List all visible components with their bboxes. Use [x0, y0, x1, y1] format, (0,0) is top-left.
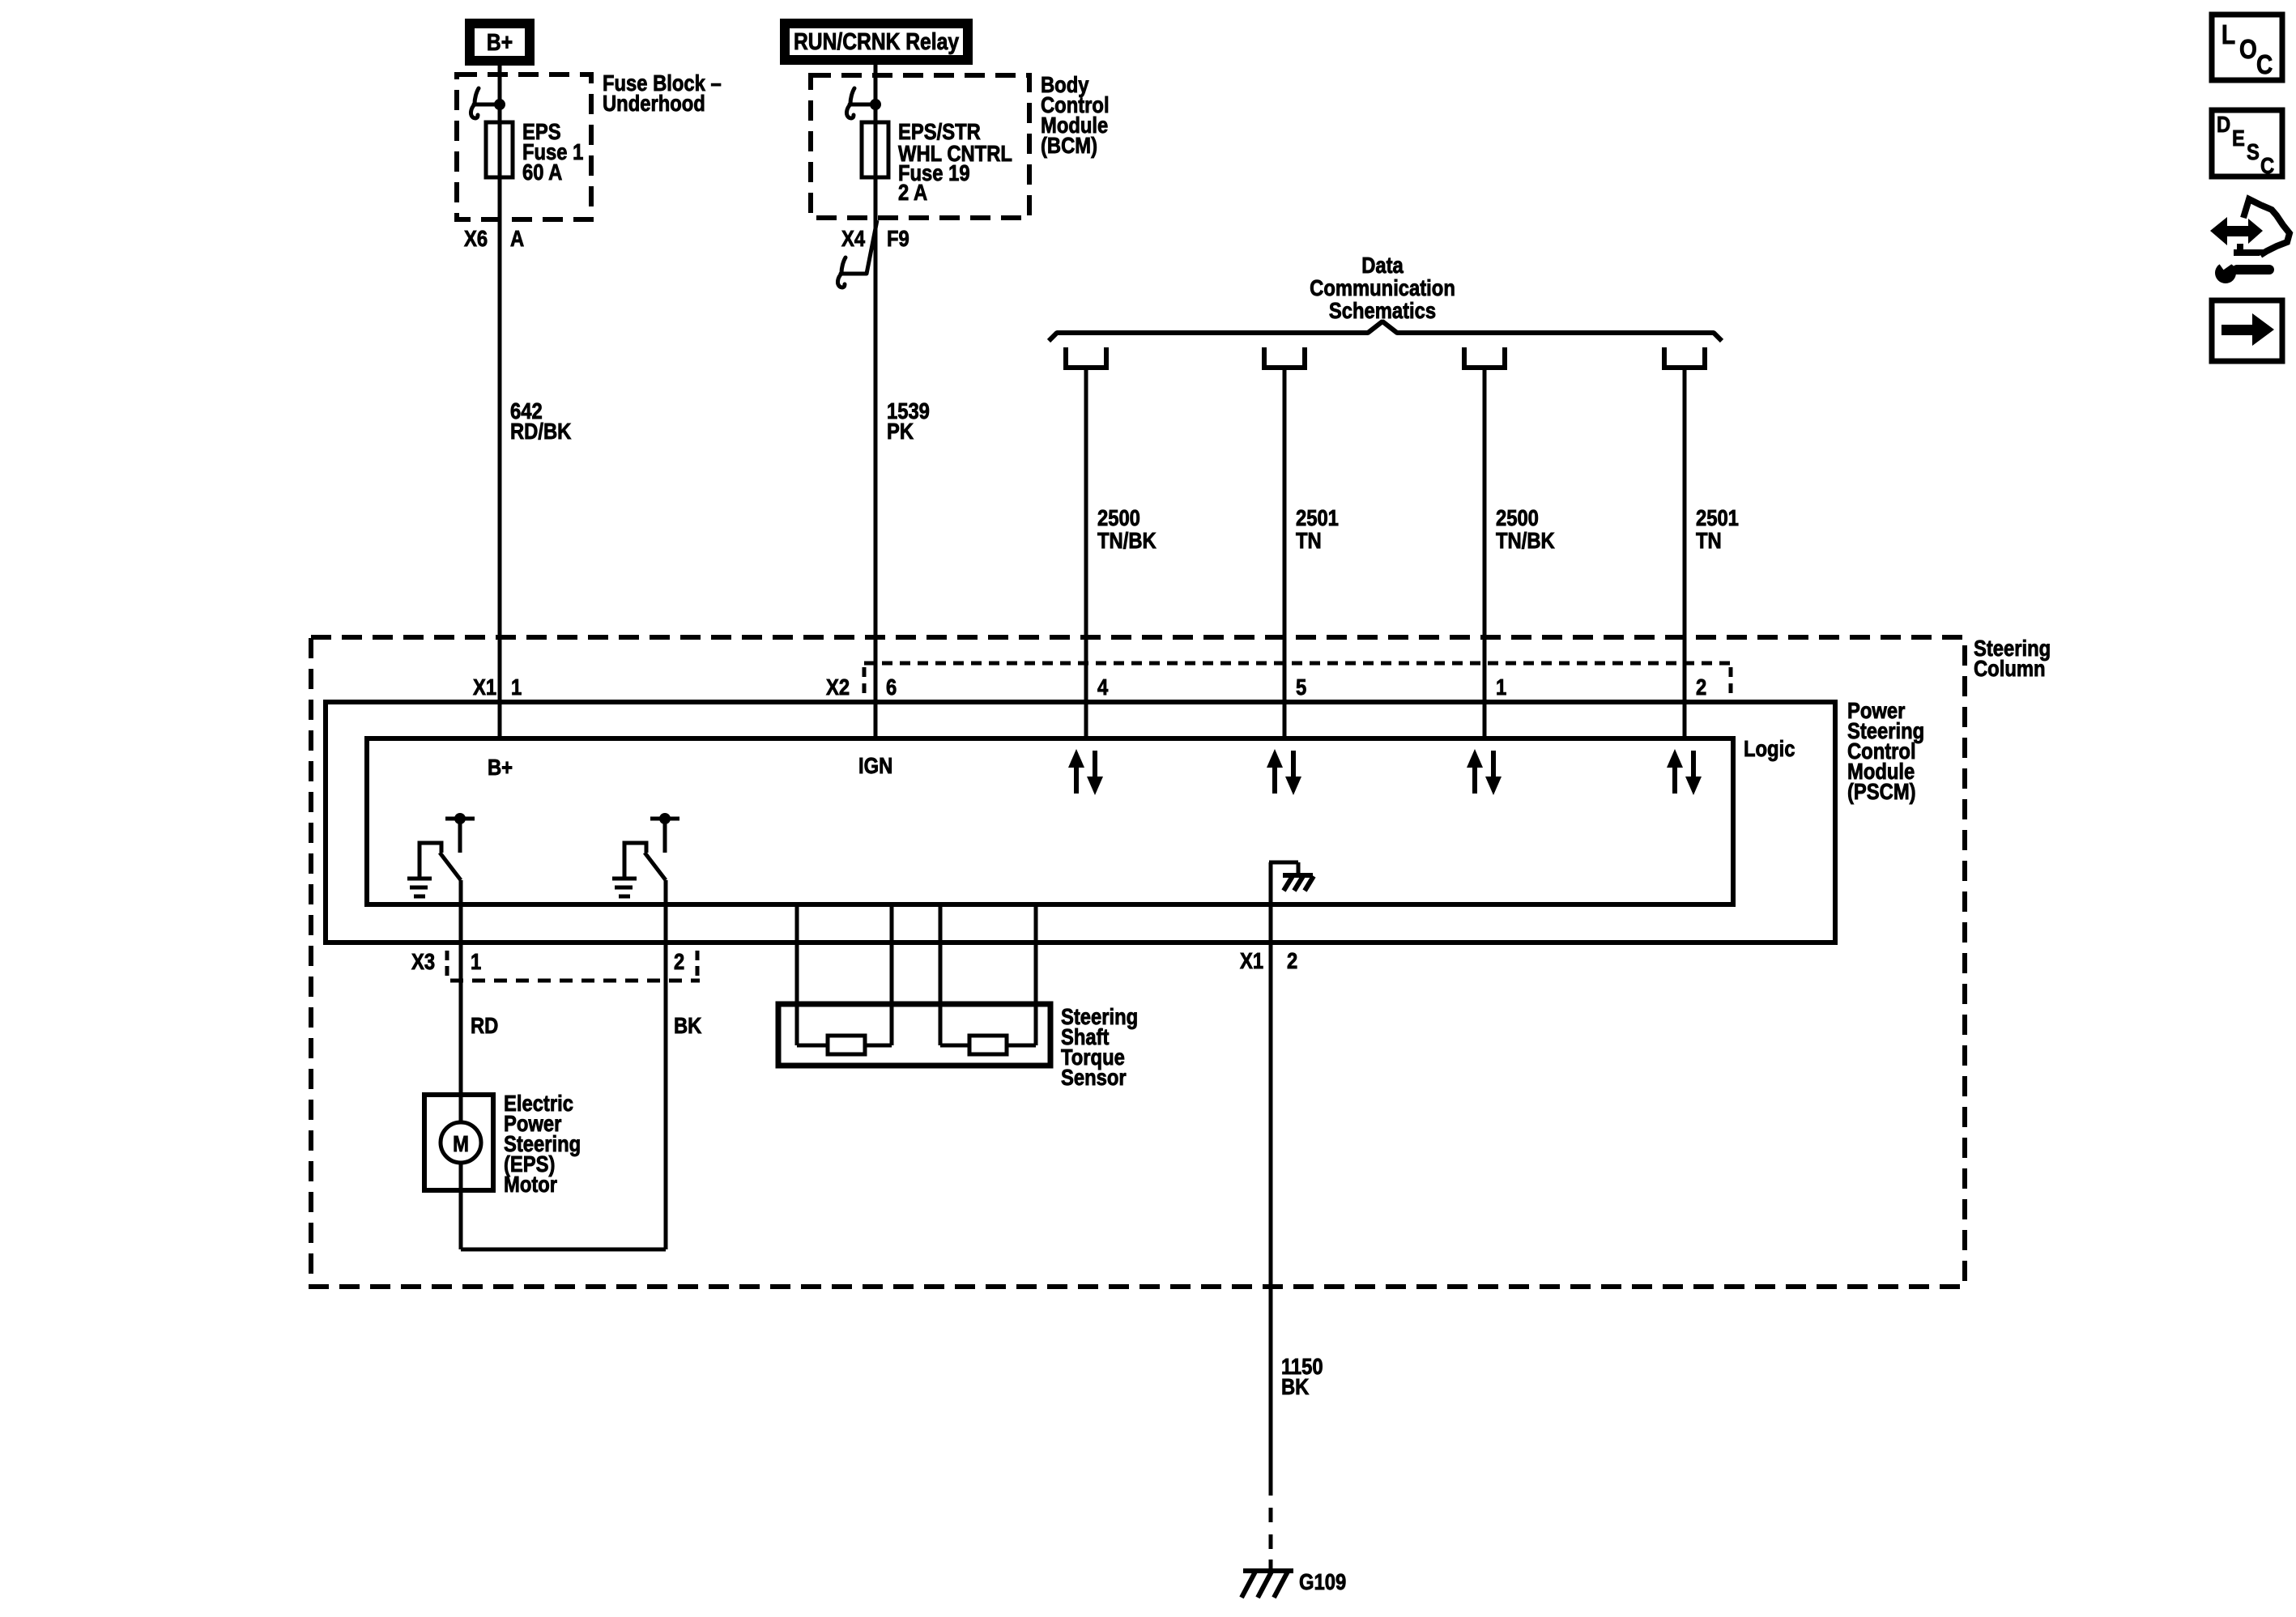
sensor element 2 wiring	[940, 1044, 969, 1048]
serial data arrows 1	[1068, 749, 1103, 795]
ground G109	[1242, 1571, 1293, 1598]
connector row X3 dashed line	[445, 951, 449, 976]
sensor element 1 wiring	[797, 1044, 828, 1048]
svg-text:6: 6	[886, 674, 897, 700]
svg-text:TN: TN	[1696, 527, 1722, 553]
wire 2501 TN	[1683, 370, 1687, 738]
svg-text:TN/BK: TN/BK	[1496, 527, 1555, 553]
svg-text:1: 1	[1496, 674, 1506, 700]
label Electric Power Steering (EPS) Motor	[504, 1090, 581, 1197]
icon forward arrow box	[2212, 300, 2282, 361]
svg-text:B+: B+	[487, 29, 513, 55]
in-line connector pigtail F9	[867, 220, 877, 274]
wire RD to motor	[459, 880, 463, 1122]
connector label X1 | 1	[473, 674, 522, 700]
svg-text:BK: BK	[1281, 1373, 1310, 1399]
fuse block - underhood dashed box	[457, 74, 591, 219]
wire label 2501 TN	[1296, 504, 1339, 553]
svg-text:2: 2	[674, 948, 684, 974]
wire torque sensor 3	[939, 904, 943, 1045]
connector cup data wire 4	[1664, 347, 1705, 368]
svg-text:X1: X1	[1240, 947, 1263, 973]
svg-text:M: M	[453, 1130, 469, 1156]
power feed RUN/CRNK Relay box	[785, 23, 968, 60]
icon LOC box	[2212, 15, 2282, 80]
wire 2500 TN/BK	[1483, 370, 1487, 738]
label Power Steering Control Module (PSCM)	[1847, 697, 1924, 804]
svg-text:X6: X6	[464, 225, 488, 251]
svg-text:L: L	[2221, 20, 2235, 50]
BCM bus clip	[846, 88, 875, 118]
svg-text:2: 2	[1696, 674, 1706, 700]
connector label X4 | F9	[841, 225, 909, 251]
svg-text:B+: B+	[488, 754, 513, 780]
svg-text:X4: X4	[841, 225, 866, 251]
svg-text:5: 5	[1296, 674, 1306, 700]
connector cup data wire 3	[1464, 347, 1505, 368]
svg-text:(PSCM): (PSCM)	[1847, 778, 1916, 804]
fuse block bus clip	[471, 88, 500, 118]
connector label X2 | 6	[826, 674, 897, 700]
svg-text:Column: Column	[1974, 655, 2046, 681]
power feed B+ box	[470, 23, 530, 61]
svg-text:RUN/CRNK Relay: RUN/CRNK Relay	[794, 28, 959, 54]
label Data Communication Schematics	[1310, 252, 1455, 323]
wire label 1150 BK	[1281, 1353, 1323, 1399]
connector cup data wire 2	[1264, 347, 1305, 368]
svg-text:RD: RD	[471, 1012, 498, 1038]
fuse EPS/STR WHL CNTRL Fuse 19 2 A	[862, 122, 888, 177]
label Steering Shaft Torque Sensor	[1061, 1003, 1138, 1090]
pin labels 4 5 1 2	[1097, 674, 1706, 700]
svg-text:IGN: IGN	[858, 752, 892, 778]
svg-text:Schematics: Schematics	[1329, 297, 1436, 323]
svg-text:(BCM): (BCM)	[1041, 132, 1097, 158]
chassis ground (internal)	[1283, 875, 1314, 891]
wire label 2500 TN/BK	[1097, 504, 1157, 553]
wire motor return loop	[459, 1163, 463, 1249]
label Fuse Block - Underhood	[603, 70, 722, 116]
wire 642 RD/BK (battery feed)	[498, 66, 502, 738]
svg-text:Logic: Logic	[1744, 735, 1795, 761]
svg-text:X3: X3	[411, 948, 435, 974]
connector label X6 | A	[464, 225, 524, 251]
svg-text:BK: BK	[674, 1012, 702, 1038]
svg-text:Motor: Motor	[504, 1171, 557, 1197]
EPS motor box	[424, 1095, 493, 1190]
svg-text:60 A: 60 A	[522, 159, 563, 185]
svg-text:TN: TN	[1296, 527, 1322, 553]
wire label 2500 TN/BK	[1496, 504, 1555, 553]
serial data arrows 4	[1667, 749, 1702, 795]
svg-text:O: O	[2239, 35, 2257, 65]
motor M circle	[441, 1122, 481, 1163]
BCM dashed box	[811, 75, 1029, 218]
internal ground wire	[1269, 862, 1273, 943]
svg-text:PK: PK	[887, 418, 914, 444]
connector label X1 | 2	[1240, 947, 1297, 973]
splice dashes to ground	[1269, 1508, 1273, 1522]
steering column dashed box	[311, 637, 1965, 1287]
wire 2500 TN/BK	[1084, 370, 1088, 738]
fuse EPS Fuse 1 60 A	[486, 122, 513, 177]
svg-text:F9: F9	[887, 225, 909, 251]
svg-text:C: C	[2256, 50, 2273, 80]
svg-text:A: A	[510, 225, 524, 251]
svg-text:C: C	[2260, 152, 2274, 178]
resistor sensor element 2	[969, 1036, 1007, 1054]
svg-text:2 A: 2 A	[898, 179, 927, 205]
connector label X3 | 1 | 2	[411, 948, 684, 974]
label Body Control Module (BCM)	[1041, 71, 1110, 158]
svg-text:S: S	[2247, 138, 2260, 164]
junction dot	[870, 99, 881, 110]
output driver switch 1	[407, 819, 475, 896]
wire label 2501 TN	[1696, 504, 1739, 553]
svg-text:X1: X1	[473, 674, 496, 700]
svg-text:E: E	[2232, 125, 2245, 151]
svg-text:X2: X2	[826, 674, 850, 700]
svg-text:Underhood: Underhood	[603, 90, 705, 116]
steering shaft torque sensor box	[778, 1004, 1050, 1066]
label Steering Column	[1974, 635, 2051, 681]
svg-text:4: 4	[1097, 674, 1109, 700]
wire torque sensor 2	[890, 904, 894, 1045]
connector row X2 dashed line	[864, 662, 1731, 666]
svg-text:RD/BK: RD/BK	[510, 418, 572, 444]
wire label 642 RD/BK	[510, 398, 572, 444]
PSCM box	[326, 702, 1835, 943]
svg-text:D: D	[2217, 111, 2230, 137]
svg-text:1: 1	[511, 674, 522, 700]
svg-text:2: 2	[1287, 947, 1297, 973]
brace Data Communication Schematics	[1049, 321, 1722, 341]
wire 1150 BK	[1269, 943, 1273, 1496]
wire BK	[664, 880, 668, 1249]
wire 2501 TN	[1283, 370, 1287, 738]
svg-text:1: 1	[471, 948, 481, 974]
wire label 1539 PK	[887, 398, 930, 444]
svg-text:TN/BK: TN/BK	[1097, 527, 1157, 553]
wire torque sensor 1	[795, 904, 799, 1045]
icon connector repair (terminal with arrow and wrench)	[2210, 199, 2290, 283]
serial data arrows 2	[1267, 749, 1301, 795]
svg-text:G109: G109	[1299, 1568, 1346, 1594]
PSCM logic box	[367, 738, 1733, 904]
junction dot	[494, 99, 505, 110]
resistor sensor element 1	[828, 1036, 865, 1054]
serial data arrows 3	[1467, 749, 1502, 795]
wire torque sensor 4	[1034, 904, 1038, 1045]
svg-text:Sensor: Sensor	[1061, 1064, 1127, 1090]
icon DESC box	[2212, 110, 2282, 178]
connector cup data wire 1	[1066, 347, 1106, 368]
output driver switch 2	[612, 819, 679, 896]
wire 1539 PK (ignition feed)	[874, 65, 878, 738]
